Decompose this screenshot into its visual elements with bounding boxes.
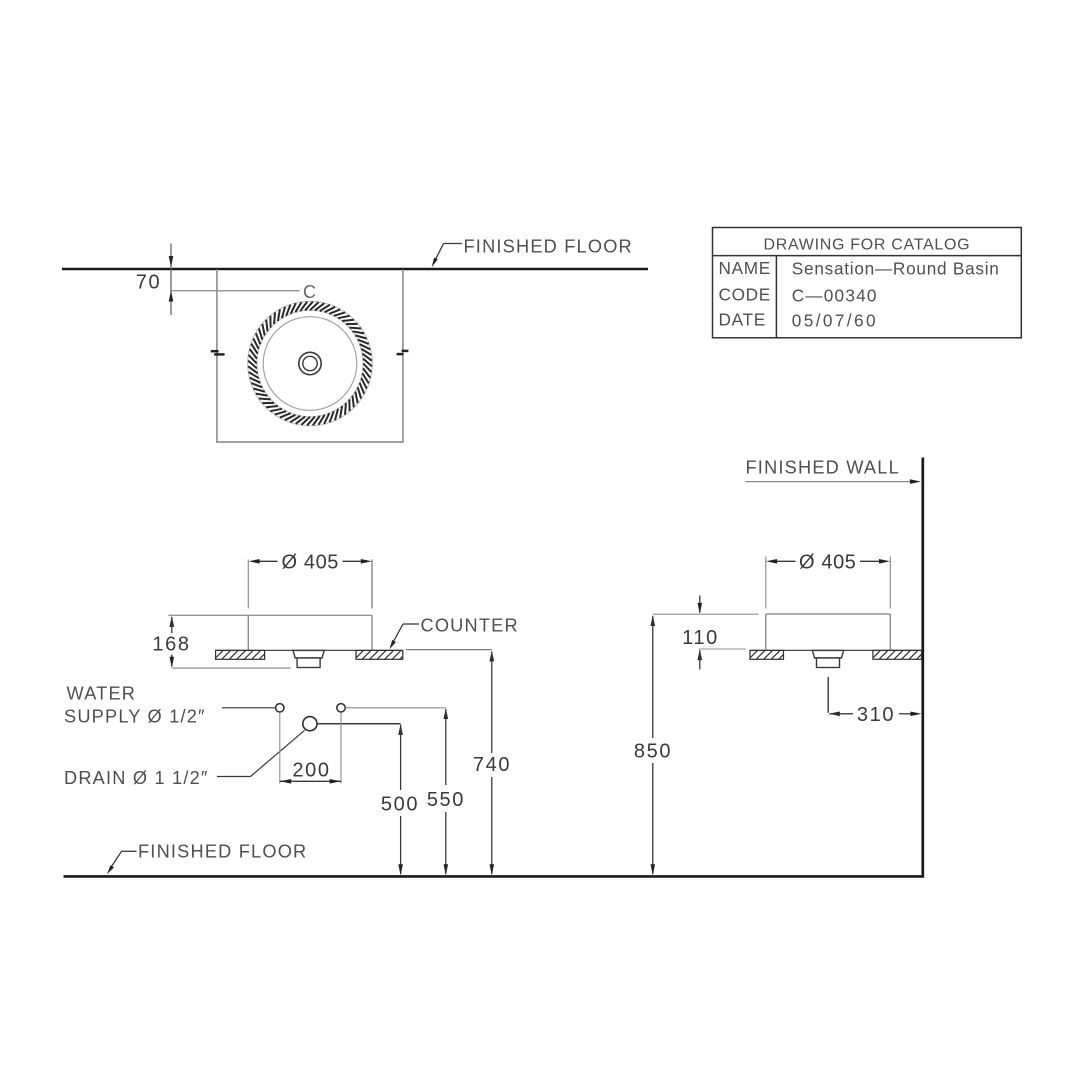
finished floor line (plan view) [62, 268, 648, 271]
drain fitting (right view) [812, 650, 843, 658]
svg-text:COUNTER: COUNTER [421, 616, 519, 636]
svg-text:Sensation—Round Basin: Sensation—Round Basin [792, 259, 1000, 279]
svg-text:DATE: DATE [719, 310, 766, 330]
basin body (right view) [766, 613, 891, 615]
finished wall underline + arrow [746, 481, 911, 483]
finished floor line (sections) [64, 875, 925, 878]
dim 168 bottom extension [172, 667, 291, 669]
svg-text:FINISHED WALL: FINISHED WALL [746, 458, 900, 478]
svg-text:NAME: NAME [719, 258, 771, 278]
svg-text:C: C [303, 282, 316, 302]
basin rim (hatched ring, plan) [248, 301, 373, 426]
counter level extension to 740 [406, 649, 492, 651]
supply level line to 550 dim [345, 707, 445, 709]
dim 500 [398, 724, 403, 735]
svg-text:168: 168 [152, 634, 190, 656]
svg-text:Ø 405: Ø 405 [799, 552, 856, 574]
svg-text:FINISHED FLOOR: FINISHED FLOOR [138, 841, 307, 861]
svg-text:550: 550 [427, 789, 465, 811]
counter hatch left (left view) [216, 650, 265, 659]
leader: FINISHED FLOOR (bottom) [122, 850, 137, 852]
counter hatch right (left view) [356, 650, 403, 659]
finished wall line [921, 458, 924, 878]
svg-text:500: 500 [381, 794, 419, 816]
title block header line [713, 255, 1022, 257]
dim 550 [444, 708, 449, 719]
dim 200 [280, 780, 341, 782]
svg-text:DRAIN Ø 1 1/2″: DRAIN Ø 1 1/2″ [64, 768, 209, 788]
svg-text:310: 310 [857, 704, 895, 726]
centre reference line to C [171, 290, 300, 292]
basin body (left view) [169, 614, 373, 616]
svg-text:C—00340: C—00340 [792, 285, 878, 305]
dim Ø405 (right view) [777, 560, 796, 562]
counter line (left view) [216, 649, 403, 651]
svg-text:FINISHED FLOOR: FINISHED FLOOR [464, 237, 633, 257]
dim 850 [651, 615, 656, 626]
svg-text:SUPPLY Ø 1/2″: SUPPLY Ø 1/2″ [64, 707, 206, 727]
dim 740 [490, 650, 495, 661]
svg-text:200: 200 [292, 759, 330, 781]
leader: DRAIN [217, 776, 251, 778]
basin inner circle (plan) [263, 317, 357, 411]
water supply point left [276, 704, 284, 712]
title block frame [713, 228, 1022, 338]
counter square (plan) [217, 270, 403, 443]
centreline tick, right edge [402, 350, 409, 353]
drain (plan) [299, 352, 321, 374]
dim 310 [829, 712, 840, 717]
svg-text:70: 70 [136, 271, 161, 293]
water supply reference line [222, 707, 275, 709]
dim 200 extension lines [279, 713, 281, 784]
svg-text:WATER: WATER [67, 684, 137, 704]
dim 110 bottom extension [699, 648, 746, 650]
svg-text:110: 110 [682, 627, 719, 649]
svg-text:740: 740 [473, 754, 511, 776]
counter line (right view) [750, 649, 922, 651]
drain pipe stub [827, 677, 829, 713]
dim Ø405 (left view) extension lines [247, 560, 249, 609]
dim Ø405 (right view) extension lines [765, 557, 767, 609]
leader: FINISHED FLOOR (top) [444, 243, 463, 245]
title block divider [775, 256, 777, 338]
dim 110 [699, 596, 701, 613]
basin top extension line (850/110) [653, 613, 759, 615]
dim 168 [170, 616, 175, 627]
counter hatch left (right view) [750, 650, 784, 659]
centreline tick, left edge [211, 350, 219, 353]
svg-text:CODE: CODE [719, 285, 771, 305]
drain fitting (left view) [293, 650, 324, 658]
leader: COUNTER [403, 623, 419, 625]
counter hatch right (right view) [873, 650, 922, 659]
drain point (left view) [303, 717, 317, 731]
dim Ø405 (left view) [259, 560, 278, 562]
water supply point right [337, 704, 345, 712]
dimension 70 [170, 244, 172, 316]
drain level line to 500 dim [317, 723, 401, 725]
svg-text:05/07/60: 05/07/60 [792, 311, 878, 331]
svg-text:850: 850 [634, 741, 672, 763]
svg-text:DRAWING FOR CATALOG: DRAWING FOR CATALOG [764, 236, 971, 253]
svg-text:Ø 405: Ø 405 [282, 552, 339, 574]
